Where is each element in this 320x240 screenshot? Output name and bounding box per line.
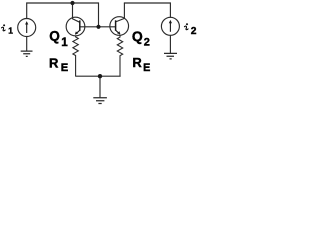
transistor Q1 base bar — [79, 20, 81, 31]
wire: Q1 collector drop — [73, 3, 80, 22]
current source i1 — [18, 19, 36, 37]
current source i1 arrow shaft — [26, 24, 28, 33]
transistor Q1 emitter lead — [75, 30, 79, 34]
svg-text:2: 2 — [144, 36, 150, 48]
current source i2 arrow shaft — [169, 23, 171, 32]
transistor Q2 base bar — [115, 20, 117, 30]
ground under i2 — [164, 53, 177, 59]
junction dot base node — [96, 25, 100, 29]
ground under i1 — [21, 51, 33, 56]
svg-text:1: 1 — [8, 25, 13, 35]
current source i2 arrow head — [169, 20, 172, 23]
transistor Q2 emitter arrow head — [117, 31, 120, 34]
resistor RE right zigzag — [117, 35, 122, 76]
current source i1 arrow head — [25, 21, 28, 24]
svg-text:E: E — [61, 62, 69, 74]
junction dot bottom node — [98, 74, 102, 78]
svg-text:1: 1 — [61, 36, 68, 49]
label i1 — [2, 24, 6, 30]
junction dot on left rail — [70, 1, 74, 5]
svg-text:2: 2 — [191, 26, 197, 37]
wire: bottom node to ground — [99, 76, 101, 97]
wire: common base wire — [80, 26, 116, 28]
wire: bottom node — [76, 75, 121, 77]
wire: Q2 collector lead — [116, 3, 125, 22]
label i2 — [184, 23, 188, 29]
wire: top-right rail Q2 collector to i2 — [124, 3, 170, 17]
ground center — [93, 98, 107, 104]
transistor Q2 — [110, 17, 129, 36]
svg-text:R: R — [132, 55, 142, 70]
transistor Q1 — [66, 17, 85, 36]
svg-text:R: R — [49, 55, 59, 70]
resistor RE left zigzag — [73, 36, 78, 76]
transistor Q1 emitter arrow head — [75, 31, 78, 34]
svg-text:Q: Q — [132, 28, 143, 44]
wire: i2 to ground — [169, 35, 171, 53]
transistor Q2 emitter lead — [116, 30, 120, 34]
current source i2 — [161, 17, 179, 35]
svg-text:Q: Q — [49, 29, 60, 44]
wire: top-left rail from i1 to base-node drop — [27, 3, 99, 27]
svg-text:E: E — [143, 62, 150, 74]
wire: i1 to ground — [26, 37, 28, 51]
